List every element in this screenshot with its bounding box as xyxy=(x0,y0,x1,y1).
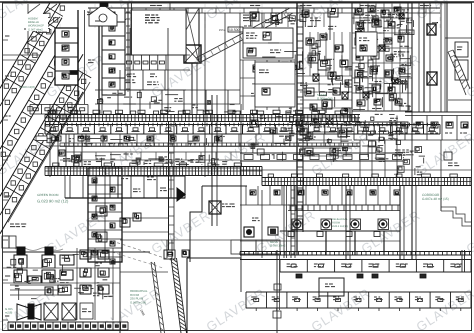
left band y150-160 rooms xyxy=(60,152,240,167)
workshop machines xyxy=(3,248,120,320)
rooms below band B xyxy=(45,134,360,146)
duct band D right segment y177-186 xyxy=(262,167,471,186)
top-right plantroom cluster xyxy=(352,3,412,111)
duct band D left segment y166-176 xyxy=(45,163,262,176)
svg-text:10.500: 10.500 xyxy=(400,31,410,35)
right rooms grid y115-177 xyxy=(394,116,471,178)
room G.060 boundary stepped xyxy=(122,186,247,262)
rooms dividers x55-88 y134-166 xyxy=(58,134,82,166)
main room band B below duct xyxy=(45,123,440,134)
svg-text:G.007 44m2: G.007 44m2 xyxy=(28,28,43,31)
verticals between cluster and band D right xyxy=(360,140,397,177)
break wavy line left xyxy=(15,248,63,251)
rehearsal room boundary xyxy=(187,258,241,333)
dashed section diagonals xyxy=(112,241,180,268)
svg-text:WORKSHOP: WORKSHOP xyxy=(28,25,44,28)
dimension tick column x127 xyxy=(126,10,130,92)
long vertical walls top half xyxy=(130,3,412,185)
left margin wall x28 xyxy=(27,4,29,55)
top-right cluster lower extension xyxy=(352,114,405,161)
annotation P.P.L. 10.500 center xyxy=(219,27,243,32)
fan circles row xyxy=(288,219,389,237)
svg-text:HOBBY/: HOBBY/ xyxy=(28,18,38,21)
top rooms row center xyxy=(243,8,338,23)
band E y205 ticks xyxy=(288,205,400,211)
right shaft dark box lower xyxy=(427,72,437,85)
verticals x262 x284 x291-295 xyxy=(262,186,295,258)
diagonal ramp top-center xyxy=(196,8,293,63)
white room mask center xyxy=(255,62,295,107)
rooms row mid-left y70-90 xyxy=(120,70,186,90)
leaning line bottom-left of rehearsal xyxy=(151,262,165,333)
stair steps right xyxy=(441,186,471,226)
pumps left of stalls xyxy=(244,218,278,237)
secondary duct y143 xyxy=(60,143,360,147)
svg-text:GREEN ROOM: GREEN ROOM xyxy=(37,193,59,197)
stall walls y231-256 xyxy=(280,231,400,255)
right corridor verticals lower xyxy=(400,185,416,259)
small rooms row y55-70 xyxy=(125,55,190,77)
room column x102-125 xyxy=(102,8,125,95)
annotation bits above band D left xyxy=(132,158,219,165)
top strip annotation noise xyxy=(96,13,438,29)
green label G.007 top-left xyxy=(26,14,48,31)
center rooms vertical partitions xyxy=(240,60,295,110)
corner street diagonals xyxy=(28,4,60,42)
stalls row1 y259-272 xyxy=(240,260,471,273)
main duct band A xyxy=(45,110,360,121)
far right rooms xyxy=(441,3,471,112)
svg-text:G.048 18m2: G.048 18m2 xyxy=(270,244,286,248)
vertical line x277 bottom xyxy=(273,250,281,333)
wall pair x346-350 xyxy=(346,186,350,260)
left edge dimension ticks xyxy=(3,36,11,320)
bottom-left stalls strip xyxy=(8,322,128,330)
center dense equipment cluster xyxy=(250,32,352,162)
diagonal ladder W3 xyxy=(0,54,91,234)
center cluster dark shafts xyxy=(285,74,348,126)
right corridor vertical walls xyxy=(405,3,471,116)
white room mask plantroom xyxy=(356,32,377,56)
bottom stalls row G xyxy=(246,292,471,311)
band C boxes row y153 xyxy=(240,153,403,161)
toilet block left strip xyxy=(88,168,122,264)
duct band F y251-255 xyxy=(240,252,471,256)
workshop dark squares top xyxy=(10,247,60,295)
squares in middle xyxy=(96,206,141,242)
vertical duct x212 xyxy=(209,95,221,226)
shaft hatched mid-top xyxy=(184,8,201,114)
svg-text:G.028 m2(8): G.028 m2(8) xyxy=(19,85,35,89)
bottom-left workshop walls xyxy=(3,252,150,333)
annotation P.P.L. right xyxy=(399,30,414,35)
room block top-left xyxy=(55,28,78,85)
top edge dimension text xyxy=(150,5,431,7)
diagonal ladder W2 xyxy=(0,3,65,124)
wall x241 vertical xyxy=(240,104,242,260)
right shaft dark box upper xyxy=(427,24,436,35)
center-left rooms block xyxy=(243,28,293,58)
gray label storage xyxy=(10,223,14,225)
svg-text:m2(8): m2(8) xyxy=(5,311,12,315)
grid tick lines top xyxy=(60,3,440,30)
svg-text:G.008 m2(6): G.008 m2(6) xyxy=(317,97,333,101)
svg-text:G.023 90 m2 (12): G.023 90 m2 (12) xyxy=(37,199,69,204)
svg-text:10.500: 10.500 xyxy=(229,28,239,32)
rooms row left y90-114 xyxy=(95,90,240,114)
big rect bottom center xyxy=(319,278,344,296)
ramp right curved xyxy=(448,50,470,95)
stage trapezoids xyxy=(17,303,93,320)
diagonal middle ladder W2.5 xyxy=(0,47,65,171)
corridor walls left column xyxy=(78,8,102,114)
top-center room outline xyxy=(128,3,186,55)
annotation P.P.L. 10.500 left xyxy=(24,29,50,33)
svg-text:G.007a 48 m2 (15): G.007a 48 m2 (15) xyxy=(422,197,449,201)
top strip walls xyxy=(88,8,440,13)
rooms row left y104-114 xyxy=(30,104,88,177)
dark glyphs below row1 xyxy=(296,250,465,278)
hatched duct column bottom xyxy=(164,240,187,333)
center vertical duct xyxy=(297,3,303,232)
middle-left rooms block x118-185 xyxy=(65,176,185,198)
mess rooms outlines xyxy=(231,240,280,254)
left small rooms y236-248 xyxy=(2,236,16,248)
left rooms row y136 detail boxes xyxy=(55,136,222,141)
svg-text:G.065 m2(4): G.065 m2(4) xyxy=(130,300,146,304)
vertical duct pair x168 mid xyxy=(169,121,175,250)
svg-text:BRAILLE: BRAILLE xyxy=(28,21,39,24)
rooms below band D right half xyxy=(240,186,400,205)
horizontal line y272 left of duct xyxy=(120,271,168,273)
long horizontal light lines xyxy=(3,55,471,241)
black arrow marker xyxy=(177,187,187,202)
house detail icon top xyxy=(89,3,117,26)
